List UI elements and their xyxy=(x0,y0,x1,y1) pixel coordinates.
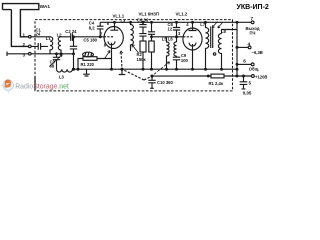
capacitor C11 xyxy=(243,75,245,77)
capacitor C1 in pin2 wire xyxy=(31,43,48,50)
resistor R1 2,4k box xyxy=(211,74,224,78)
resistor R1 220 box xyxy=(83,57,97,61)
svg-text:68: 68 xyxy=(50,64,55,69)
svg-text:VL1 6Н3П: VL1 6Н3П xyxy=(139,11,159,16)
svg-text:8,2: 8,2 xyxy=(89,26,95,31)
anode VL1.1 xyxy=(110,22,118,30)
wire right vertical xyxy=(236,22,238,76)
node cathode-rail xyxy=(111,68,113,70)
wire grid VL1.2 xyxy=(152,36,184,38)
watermark icon xyxy=(0,79,13,93)
svg-text:24: 24 xyxy=(36,32,41,37)
mechanical link dashed left arm with arrowhead xyxy=(121,51,144,80)
grid VL1.2 xyxy=(183,36,193,38)
anode VL1.2 xyxy=(189,22,197,30)
wire pin3 to C3 node xyxy=(31,53,73,55)
wire cathode to R box to ground xyxy=(78,59,112,70)
svg-text:2: 2 xyxy=(23,42,26,47)
wire rail A (chassis) xyxy=(72,68,237,70)
svg-text:7: 7 xyxy=(251,16,254,21)
svg-text:7: 7 xyxy=(100,32,103,37)
svg-text:УКВ-ИП-2: УКВ-ИП-2 xyxy=(237,4,269,11)
terminal pin 4 heater xyxy=(237,46,248,48)
ground stub A xyxy=(83,69,90,76)
transformer core L7/L8 xyxy=(211,27,213,49)
svg-text:3: 3 xyxy=(178,31,181,36)
svg-text:150к: 150к xyxy=(137,57,147,62)
capacitor C10 xyxy=(151,75,153,77)
svg-text:VL1.2: VL1.2 xyxy=(176,11,188,16)
wire pin3 left tail xyxy=(7,52,29,57)
arrow at cathode xyxy=(105,51,111,59)
wire rail B xyxy=(152,75,252,77)
capacitor C3 trimmer with arrow xyxy=(53,54,60,69)
arrows into L7/L8 core xyxy=(212,22,222,29)
terminal pin 3 xyxy=(29,53,32,56)
arrow into L4 core xyxy=(132,45,139,53)
cathode VL1.2 xyxy=(189,43,196,70)
svg-text:L5 L6: L5 L6 xyxy=(162,36,174,41)
svg-text:R1 2,4к: R1 2,4к xyxy=(209,81,224,86)
svg-text:ПЧ: ПЧ xyxy=(250,30,256,35)
ground stub B with node xyxy=(121,68,123,70)
svg-text:5: 5 xyxy=(249,81,252,86)
terminal pin 1 xyxy=(29,36,32,39)
svg-text:1: 1 xyxy=(23,33,26,38)
resistor R3 chain with capacitor xyxy=(151,21,153,23)
terminal circle between coils xyxy=(213,53,215,55)
inductor L6 xyxy=(174,42,177,56)
svg-text:С10 360: С10 360 xyxy=(157,80,174,85)
wire top B+ xyxy=(100,21,251,23)
svg-text:VL1.1: VL1.1 xyxy=(113,14,125,19)
terminal pin 6 common xyxy=(237,63,251,65)
mechanical link right arm xyxy=(144,76,152,80)
svg-text:6: 6 xyxy=(243,58,246,63)
antenna WA1 dipole T outline xyxy=(3,4,39,47)
cathode VL1.1 xyxy=(108,41,115,58)
capacitor C9 under L6 xyxy=(173,56,180,69)
svg-text:R1 220: R1 220 xyxy=(81,62,95,67)
svg-text:C5 180: C5 180 xyxy=(84,37,98,42)
grid VL1.1 xyxy=(104,36,113,38)
shield box dashed xyxy=(35,20,233,91)
svg-text:WA1: WA1 xyxy=(40,4,51,10)
terminal pin 2 xyxy=(29,45,32,48)
node rail left xyxy=(73,68,75,70)
svg-text:~6,3В: ~6,3В xyxy=(252,50,263,55)
mechanical link arrow to L6 xyxy=(154,62,170,75)
node L2 bottom / pin3 junction xyxy=(60,53,62,55)
svg-text:12: 12 xyxy=(168,27,173,32)
resistor block oval in cathode wire xyxy=(83,52,94,57)
svg-text:100: 100 xyxy=(181,58,189,63)
terminal pin 5 +120V xyxy=(252,75,255,78)
svg-text:L3: L3 xyxy=(59,75,65,80)
resistor R2 box xyxy=(140,41,146,52)
svg-text:Общ.: Общ. xyxy=(249,67,260,72)
svg-text:+120В: +120В xyxy=(255,74,267,79)
svg-text:0,05: 0,05 xyxy=(243,91,252,96)
wire grid main (L2 top to VL1.1 grid) xyxy=(61,36,104,38)
wire pin1 to L1 top xyxy=(31,36,50,38)
svg-text:RadioStorage.net: RadioStorage.net xyxy=(15,84,69,91)
